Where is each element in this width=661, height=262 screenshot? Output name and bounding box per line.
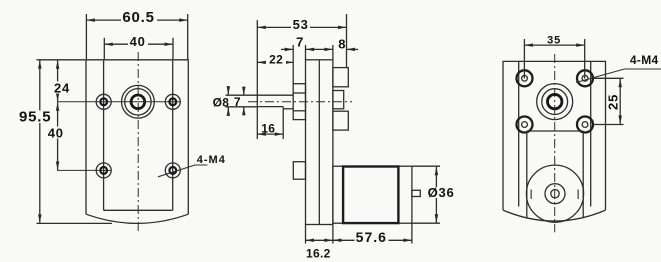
hole top-left outer [96, 94, 111, 109]
motor circle right view [526, 165, 583, 222]
dimension 53 extension line left (shaft tip) [256, 20, 258, 139]
shaft diameter extension top [226, 94, 258, 96]
dimension 16.2 line [306, 239, 333, 241]
svg-text:4-M4: 4-M4 [197, 154, 226, 166]
dimension 60.5 extension lines [85, 14, 87, 59]
hole top-left right view [517, 70, 533, 86]
motor shaft circles right view [545, 184, 565, 204]
plate bottom arc left view [86, 214, 188, 223]
inner face bottom line [104, 209, 173, 211]
svg-text:24: 24 [54, 80, 70, 95]
hole bottom-left right view [517, 117, 533, 133]
dimension 24 line [57, 60, 59, 101]
output shaft flat bottom line [257, 106, 283, 108]
svg-text:8: 8 [338, 36, 346, 51]
inner face left vertical [103, 60, 105, 211]
shaft centerline middle view [248, 101, 352, 103]
dimension 7 arrow left [281, 48, 293, 50]
inner face right vertical right view [590, 61, 592, 206]
svg-text:Ø36: Ø36 [428, 185, 455, 200]
output shaft top line [257, 94, 293, 96]
inner face right vertical [172, 60, 174, 211]
dia 36 dimension line [435, 167, 437, 223]
text 40 top [128, 37, 148, 48]
dimension 57.6 extension right [411, 224, 413, 244]
dimension 40 top extension lines [103, 38, 105, 59]
motor outer outline [333, 166, 412, 223]
dimension 57.6 line [333, 239, 412, 241]
dimension 60.5 line [86, 19, 187, 21]
dimension 7 arrow right joined to dimension 8 arrow left [306, 48, 333, 50]
rear bottom screw tab [333, 111, 348, 130]
svg-text:16.2: 16.2 [306, 246, 331, 260]
dia 36 extension top [412, 165, 440, 167]
hole top-left inner [100, 98, 107, 105]
dimension 25 line [619, 79, 621, 124]
gearbox middle plate line [318, 60, 320, 225]
front plate screw tab [293, 162, 305, 180]
hole top-right right view [577, 70, 593, 86]
boss outer circle left view [121, 85, 154, 118]
hole top-right outer [165, 94, 180, 109]
svg-text:95.5: 95.5 [19, 108, 51, 125]
horizontal centerline through upper holes [57, 101, 181, 103]
text 24 [53, 82, 72, 94]
hole top-right inner [169, 98, 176, 105]
dimension 35 line [524, 44, 584, 46]
svg-text:53: 53 [293, 17, 309, 32]
dia 36 extension bottom [412, 222, 440, 224]
boss step line upper [293, 92, 305, 94]
svg-text:7: 7 [234, 95, 241, 109]
dimension 7 extension line (boss face) [292, 45, 294, 84]
svg-text:60.5: 60.5 [122, 9, 154, 26]
dimension 53 extension line right [346, 14, 348, 68]
text 57.6 [355, 232, 389, 244]
motor bracket horizontal below holes [527, 130, 583, 132]
dimension 22 line [257, 61, 293, 63]
boss outer circle right view [537, 84, 573, 120]
svg-text:Ø8: Ø8 [213, 95, 230, 109]
dimension 40 top line [104, 43, 173, 45]
svg-text:7: 7 [296, 35, 304, 50]
front plate edge extension up for dim 7 [305, 45, 307, 60]
boss middle circle left view [125, 89, 151, 115]
hole bottom-right inner [169, 167, 176, 174]
dimension 40 left line [57, 102, 59, 170]
gearbox body rectangle [306, 60, 333, 225]
hole bottom-left outer [96, 163, 111, 178]
rear plate edge extension up for dim 8 [332, 45, 334, 60]
text 95.5 [18, 111, 54, 124]
boss shaft hole thick circle left view [131, 95, 145, 109]
dimension 8 arrow right [347, 48, 359, 50]
dimension 16 extension right [282, 109, 284, 139]
motor silhouette right vertical [582, 131, 584, 218]
svg-text:35: 35 [547, 35, 561, 47]
plate bottom arc right view [503, 210, 606, 221]
vertical centerline right view [554, 54, 556, 232]
plate outline left view [86, 60, 188, 214]
text 60.5 [121, 10, 157, 24]
dimension 53 line [257, 26, 346, 28]
horizontal line through lower-left hole [57, 169, 112, 171]
width 7 arrow pair [243, 87, 245, 96]
hole bottom-right right view [577, 117, 593, 133]
hole bottom-left inner [100, 167, 107, 174]
inner face left vertical right view [518, 61, 520, 206]
text dia36 [428, 187, 456, 198]
motor silhouette left vertical [526, 131, 528, 218]
leader 4-M4 left view [158, 165, 208, 177]
brush tick left [530, 190, 532, 200]
dimension 95.5 extension lines [37, 59, 87, 61]
text 53 [291, 19, 310, 31]
svg-text:4-M4: 4-M4 [630, 53, 659, 67]
text 22 [266, 55, 286, 66]
dimension 16.2 extension lines [305, 225, 307, 244]
hole bottom-right outer [165, 163, 180, 178]
vertical centerline left view [137, 52, 139, 233]
rear top screw tab [333, 68, 348, 87]
svg-text:40: 40 [130, 34, 146, 49]
output shaft full bottom line [283, 108, 293, 110]
svg-text:25: 25 [606, 94, 621, 110]
shaft diameter extension bottom [226, 106, 258, 108]
boss middle circle right view [542, 89, 568, 115]
brush tick right [577, 190, 579, 200]
dia 8 arrow pair [227, 86, 229, 95]
motor rear shaft tab [412, 190, 420, 196]
dimension 25 extension lines [593, 77, 624, 79]
boss shaft thick circle right view [548, 94, 562, 108]
dimension 35 extension lines [523, 39, 525, 79]
svg-text:16: 16 [261, 121, 275, 135]
leader 4-M4 right view [576, 69, 661, 83]
motor can thick outline [343, 167, 398, 224]
svg-text:40: 40 [48, 126, 64, 141]
boss step line lower [293, 110, 305, 112]
front bearing boss [293, 84, 305, 120]
plate outline right view [503, 61, 606, 210]
dimension 95.5 line [39, 60, 41, 223]
dimension 16 line [257, 133, 283, 135]
rear middle bearing square [333, 91, 344, 109]
svg-text:22: 22 [269, 52, 283, 66]
svg-text:57.6: 57.6 [356, 229, 387, 245]
output shaft step [282, 107, 284, 109]
text 40 left [47, 127, 66, 139]
